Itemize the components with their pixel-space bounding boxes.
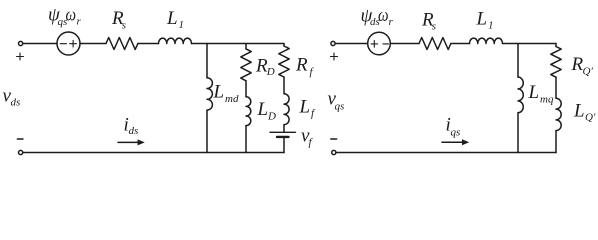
wire source to R_s right — [390, 43, 419, 45]
wire L_D to bottom rail — [245, 126, 247, 153]
svg-text:qs: qs — [451, 127, 461, 139]
svg-text:L: L — [166, 8, 178, 29]
svg-text:s: s — [122, 20, 126, 32]
svg-text:f: f — [310, 66, 315, 78]
wire R_f to L_f — [283, 77, 285, 94]
wire L_Q to bottom rail — [555, 131, 557, 153]
inductor L_md — [207, 78, 212, 110]
inductor L_D — [246, 97, 251, 126]
svg-text:Q′: Q′ — [583, 65, 594, 77]
node branch L_mq drop wire — [517, 44, 519, 78]
inductor L_Q' — [556, 98, 561, 130]
wire source to R_s — [80, 43, 106, 45]
terminal top-left (+) — [19, 41, 23, 45]
svg-text:L: L — [476, 9, 488, 30]
source U2 plus sign — [371, 41, 378, 48]
svg-text:L: L — [528, 82, 540, 103]
wire battery to bottom rail — [283, 138, 285, 153]
svg-text:mq: mq — [540, 93, 554, 105]
wire R_D to L_D — [245, 81, 247, 97]
svg-text:1: 1 — [179, 19, 185, 31]
wire top corner into R_f — [283, 44, 285, 47]
wire L_l to node and top rail to branch R_f — [192, 43, 285, 45]
inductor L_f — [284, 94, 289, 125]
terminal top-right (+) — [331, 41, 335, 45]
minus sign left input — [17, 138, 23, 140]
svg-text:D: D — [266, 66, 275, 78]
plus sign left input — [17, 53, 24, 60]
wire L_mq to bottom rail — [517, 113, 519, 153]
svg-text:1: 1 — [488, 20, 494, 32]
wire R_Q to L_Q — [555, 77, 557, 98]
resistor R_f — [279, 46, 289, 77]
svg-text:md: md — [225, 93, 239, 105]
svg-text:r: r — [389, 16, 394, 28]
wire R_s to L_l right — [451, 43, 470, 45]
svg-text:Q′: Q′ — [585, 112, 596, 124]
resistor R_D — [241, 49, 251, 81]
battery v_f long plate — [270, 131, 296, 133]
svg-text:f: f — [311, 108, 316, 120]
source U1 minus sign — [60, 43, 66, 45]
node branch R_D drop wire — [245, 44, 247, 49]
wire top corner into R_Q — [555, 44, 557, 47]
source U2 circle (speed voltage psi_ds*wr) — [368, 32, 391, 55]
inductor L_mq — [518, 77, 523, 113]
svg-text:D: D — [267, 111, 276, 123]
resistor R_s right — [419, 38, 451, 50]
svg-text:f: f — [309, 137, 314, 149]
bottom rail right circuit — [336, 152, 556, 154]
source U1 plus sign — [70, 40, 77, 47]
svg-text:R: R — [295, 55, 308, 76]
wire top-right to source — [335, 43, 368, 45]
svg-text:L: L — [573, 101, 585, 122]
wire L_md to bottom rail — [206, 110, 208, 152]
wire top-left to source — [23, 43, 57, 45]
top rail to branch R_Q — [503, 43, 557, 45]
current arrow i_ds — [118, 141, 140, 143]
source U2 minus sign — [383, 43, 389, 45]
svg-text:s: s — [432, 21, 436, 33]
wire R_s to L_l — [138, 43, 159, 45]
svg-text:L: L — [213, 81, 225, 102]
bottom rail left circuit — [23, 152, 284, 154]
terminal bottom-right — [332, 150, 336, 154]
inductor L_l right — [470, 38, 503, 43]
terminal bottom-left — [19, 150, 23, 154]
resistor R_s left — [106, 38, 138, 50]
battery v_f short plate — [277, 136, 289, 138]
svg-text:ds: ds — [11, 97, 21, 109]
source U1 circle (speed voltage psi_qs*wr) — [57, 32, 80, 55]
svg-text:L: L — [257, 99, 269, 120]
svg-text:r: r — [77, 16, 82, 28]
current arrow i_qs — [442, 141, 464, 143]
plus sign right input — [331, 53, 338, 60]
svg-text:ds: ds — [129, 125, 139, 137]
svg-text:L: L — [299, 97, 311, 118]
minus sign right input — [331, 138, 337, 140]
node branch L_md drop wire — [206, 44, 208, 78]
svg-text:ω: ω — [378, 5, 389, 26]
resistor R_Q' — [551, 47, 561, 78]
svg-text:qs: qs — [335, 101, 345, 113]
svg-text:ω: ω — [66, 5, 77, 26]
wire L_f to battery — [283, 125, 285, 132]
inductor L_l left — [159, 38, 192, 43]
